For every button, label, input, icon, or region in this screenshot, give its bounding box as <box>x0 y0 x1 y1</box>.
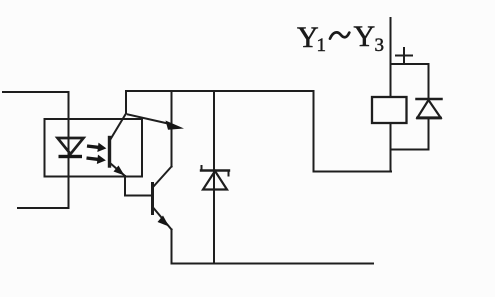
svg-text:1: 1 <box>317 35 327 56</box>
svg-text:Y: Y <box>297 21 319 54</box>
svg-text:3: 3 <box>375 35 385 56</box>
svg-text:Y: Y <box>354 20 376 53</box>
